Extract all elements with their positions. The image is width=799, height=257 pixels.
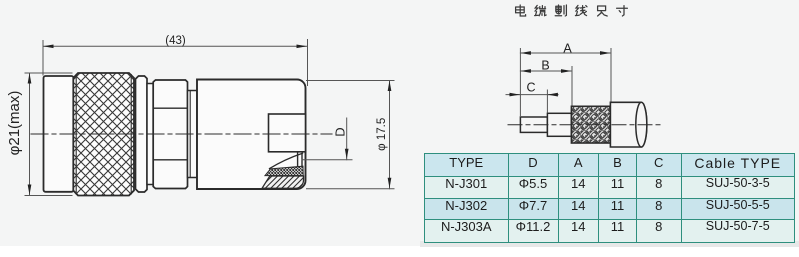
- dimension (43): [43, 40, 308, 86]
- svg-text:φ 17.5: φ 17.5: [376, 118, 388, 151]
- svg-text:φ21(max): φ21(max): [6, 91, 23, 156]
- dimension C (cable, outside arrows): [506, 90, 558, 112]
- char 线: [575, 5, 587, 15]
- dimensions table: [424, 153, 795, 243]
- inner conductor: [520, 117, 547, 132]
- char 电: [516, 5, 526, 16]
- clamp channel walls: [298, 152, 302, 168]
- svg-text:A: A: [563, 41, 572, 55]
- svg-text:C: C: [526, 81, 535, 95]
- char 缆: [535, 5, 547, 15]
- dimension D (bore): [302, 118, 352, 160]
- knurled coupling nut: [73, 73, 134, 196]
- cable centerline: [508, 124, 661, 126]
- bore rectangle (cable entry section): [269, 114, 306, 152]
- char 剥: [555, 5, 566, 16]
- dielectric: [547, 113, 571, 136]
- dimension phi21(max): [25, 73, 72, 196]
- centerline main connector: [31, 133, 332, 135]
- char 尺: [598, 6, 608, 16]
- ring A behind nut: [136, 76, 148, 192]
- dimension B (cable): [520, 67, 572, 106]
- flange (front coupling ring): [44, 76, 74, 192]
- clamp cone curve: [270, 153, 303, 168]
- cable jacket: [610, 102, 646, 147]
- gasket (fine crosshatch wedge): [265, 166, 303, 175]
- shadow band under table: [420, 241, 799, 247]
- groove: [147, 84, 153, 185]
- clamp wedge (hatched): [262, 176, 304, 188]
- svg-text:D: D: [332, 127, 347, 136]
- body: [197, 80, 306, 190]
- braid (woven): [571, 106, 610, 143]
- svg-text:B: B: [541, 58, 549, 72]
- neck: [188, 91, 198, 178]
- char 寸: [617, 6, 628, 16]
- title text: 电缆剥线尺寸 (drawn as vector strokes): [516, 5, 628, 16]
- dimension A (cable): [520, 49, 611, 116]
- dimension phi17.5: [307, 81, 395, 189]
- cable jacket end face ellipse: [636, 102, 647, 147]
- hex section: [153, 80, 187, 189]
- svg-text:(43): (43): [165, 35, 186, 47]
